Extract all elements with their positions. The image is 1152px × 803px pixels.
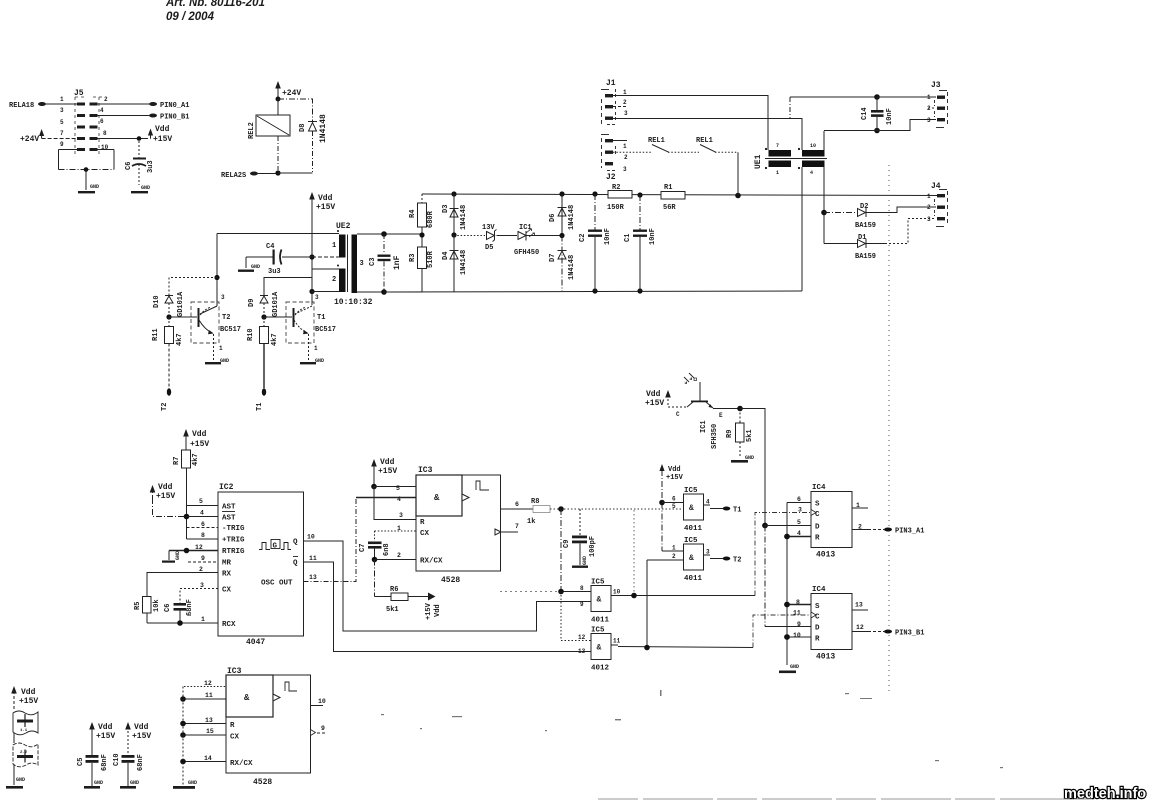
svg-text:12: 12 [204, 680, 212, 687]
node CX [180, 732, 186, 738]
svg-text:6: 6 [672, 496, 676, 503]
resistor R7 4k7 [173, 450, 200, 539]
node gate C out [631, 593, 637, 599]
wire pin5 [374, 486, 416, 488]
svg-text:1: 1 [927, 193, 931, 200]
transistor T2 BC517 [191, 294, 241, 364]
wire RX to R5 [147, 573, 218, 597]
wire S/R common vertical [786, 503, 788, 666]
svg-text:9: 9 [60, 141, 64, 148]
svg-text:D7: D7 [549, 254, 557, 262]
svg-text:1: 1 [314, 345, 318, 352]
resistor R5 10k [134, 597, 161, 624]
svg-text:Q: Q [293, 560, 298, 568]
power Vdd +15V (R7) [183, 429, 209, 450]
svg-text:E: E [719, 412, 723, 419]
wire FF1 outputs to PIN3_A1 [868, 529, 884, 531]
svg-text:IC1: IC1 [700, 420, 708, 433]
wire IC3b R [183, 723, 226, 725]
svg-text:2: 2 [332, 276, 336, 284]
node C1 top [637, 192, 642, 197]
NAND gate IC5a 4011 [662, 487, 741, 533]
svg-text:RTRIG: RTRIG [222, 548, 245, 556]
svg-text:&: & [434, 493, 440, 503]
svg-text:D: D [815, 625, 820, 633]
svg-text:8: 8 [103, 130, 107, 137]
flip-flop IC4a 4013 [797, 484, 868, 560]
ground (C5) [84, 786, 100, 789]
node FF2 S [784, 602, 790, 608]
svg-text:4011: 4011 [684, 575, 703, 583]
svg-text:C1: C1 [624, 234, 632, 242]
svg-text:UE1: UE1 [754, 154, 763, 169]
svg-text:RCX: RCX [222, 621, 236, 629]
svg-text:GND: GND [315, 358, 324, 364]
svg-text:4012: 4012 [591, 665, 610, 673]
svg-text:1: 1 [672, 545, 676, 552]
svg-text:MR: MR [222, 560, 232, 568]
svg-text:4: 4 [200, 510, 204, 517]
svg-text:510R: 510R [427, 250, 435, 268]
wire winding2 bottom [312, 291, 339, 293]
node D3 top [451, 191, 456, 196]
capacitor C6 68nF [164, 599, 194, 623]
diode D1 BA159 [824, 219, 936, 262]
svg-text:C: C [676, 411, 680, 418]
ground (J5) [78, 191, 95, 193]
wire secondary bottom rail [357, 291, 422, 293]
capacitor C10 68nF [113, 753, 145, 788]
node FF1 D [762, 523, 768, 529]
node C3 bottom [381, 289, 387, 295]
svg-text:R10: R10 [247, 328, 255, 341]
svg-text:GND: GND [220, 358, 229, 364]
NAND gate IC5c 4011 [561, 579, 755, 625]
svg-text:10: 10 [307, 534, 315, 541]
wire REL1 to node [737, 152, 739, 195]
svg-text:11: 11 [793, 610, 801, 617]
transformer UE1 [754, 143, 827, 176]
svg-text:C14: C14 [861, 107, 869, 120]
winding UE1-2 [769, 161, 792, 168]
svg-text:2: 2 [104, 96, 108, 103]
node C14 top [874, 94, 880, 100]
svg-text:+15V: +15V [19, 697, 38, 706]
svg-text:1: 1 [623, 143, 627, 150]
svg-text:3: 3 [360, 260, 364, 268]
diode D2 BA159 [824, 203, 936, 230]
svg-text:RX/CX: RX/CX [230, 760, 253, 768]
wire Vdd center-tap vertical [311, 207, 313, 305]
svg-text:+15V: +15V [96, 732, 115, 741]
net label PIN0_B1 [149, 114, 157, 118]
scan artifacts bottom [598, 798, 1092, 800]
svg-text:R6: R6 [390, 586, 398, 594]
svg-text:14: 14 [204, 755, 212, 762]
svg-text:Vdd: Vdd [192, 430, 207, 439]
svg-text:1N4148: 1N4148 [319, 114, 328, 143]
svg-text:+TRIG: +TRIG [222, 537, 245, 545]
wire J2 pin2 to REL1 [613, 151, 651, 153]
svg-text:SFH350: SFH350 [711, 424, 719, 449]
svg-text:Vdd: Vdd [434, 604, 442, 617]
svg-text:13: 13 [578, 648, 586, 655]
node D6 top [559, 191, 564, 196]
svg-text:13: 13 [309, 574, 317, 581]
svg-text:C9: C9 [563, 540, 571, 548]
svg-text:PIN0_A1: PIN0_A1 [160, 102, 189, 110]
resistor R8 1k [501, 498, 684, 526]
svg-text:S: S [815, 603, 820, 611]
winding UE1-1 [769, 150, 792, 157]
resistor R4 680R [409, 194, 435, 247]
flip-flop IC4b 4013 [793, 586, 868, 662]
capacitor C4 3u3 [238, 243, 312, 276]
svg-text:1N4148: 1N4148 [568, 255, 576, 280]
node C2 top [592, 191, 597, 196]
svg-text:C10: C10 [113, 753, 121, 766]
wire IC3b pin11 [183, 698, 226, 700]
wire J5 pin8 to Vdd node [98, 138, 147, 140]
svg-text:R9: R9 [726, 430, 734, 438]
svg-text:&: & [689, 554, 694, 563]
node IC3 pin5 [371, 484, 377, 490]
svg-text:4: 4 [706, 499, 710, 506]
power +24V (REL2) [275, 81, 301, 98]
svg-text:GND: GND [90, 184, 99, 190]
wire Q output [304, 541, 592, 631]
svg-text:4528: 4528 [253, 778, 272, 787]
svg-text:+15V: +15V [153, 135, 172, 144]
capacitor C5 68nF [77, 754, 109, 788]
wire R8 node down to gate C pin8 node [560, 509, 562, 592]
svg-text:1: 1 [219, 345, 223, 352]
wire +24V to J5 pin7 [42, 138, 77, 140]
power Vdd +15V (bulk caps) [11, 686, 38, 711]
capacitor C14 10nF [861, 97, 894, 131]
svg-text:68nF: 68nF [137, 754, 145, 771]
diode D6 1N4148 [549, 194, 576, 236]
wire mid to D5 [454, 235, 485, 237]
wire OSC OUT [304, 498, 357, 582]
svg-text:RELA18: RELA18 [9, 102, 34, 110]
svg-text:CX: CX [420, 530, 430, 538]
svg-text:680R: 680R [427, 210, 435, 228]
svg-text:D5: D5 [485, 244, 493, 252]
svg-text:GND: GND [251, 264, 260, 270]
svg-text:BA159: BA159 [855, 222, 876, 230]
diode D3 1N4148 [442, 194, 468, 235]
node FF1 R [784, 534, 790, 540]
node RCX/C6 [177, 620, 183, 626]
node +24V/D8 [276, 97, 281, 102]
wire winding2 top [312, 268, 339, 270]
wire C14 top to J3 pin1 [877, 96, 936, 98]
svg-text:+24V: +24V [282, 89, 301, 98]
svg-text:8: 8 [580, 585, 584, 592]
svg-text:4011: 4011 [684, 525, 703, 533]
winding UE1-4 [802, 161, 825, 168]
wire IC3b RX/CX [183, 761, 226, 763]
svg-text:+15V: +15V [378, 467, 397, 476]
wire FF2 R [787, 636, 811, 638]
wire T2 collector [216, 234, 218, 307]
svg-text:R7: R7 [173, 457, 181, 465]
svg-text:6: 6 [515, 501, 519, 508]
IC2 4047 [195, 483, 317, 647]
net label RELA18 [9, 102, 77, 110]
power Vdd +15V (AST) [150, 483, 187, 517]
svg-text:IC1: IC1 [519, 224, 532, 232]
svg-text:4047: 4047 [246, 638, 265, 647]
node T2 collector [214, 275, 219, 280]
node RX/CX [372, 557, 378, 563]
svg-text:9: 9 [321, 725, 325, 732]
svg-text:11: 11 [309, 555, 317, 562]
svg-text:3u3: 3u3 [268, 268, 281, 276]
ground (C9) [572, 566, 588, 568]
svg-text:4: 4 [397, 496, 401, 503]
svg-text:4011: 4011 [591, 617, 610, 625]
wire emitter node right and down [740, 409, 765, 526]
svg-text:2: 2 [397, 552, 401, 559]
IC3 4528 (second half) [204, 667, 326, 787]
svg-text:J1: J1 [606, 79, 616, 88]
svg-text:-TRIG: -TRIG [222, 525, 245, 533]
wire Vdd down to R row [374, 487, 416, 520]
svg-text:+15V: +15V [645, 399, 664, 408]
svg-text:3: 3 [60, 107, 64, 114]
resistor R2 150R [607, 184, 632, 212]
wire FF2 out to PIN3_B1 [868, 631, 884, 633]
svg-text:13: 13 [205, 717, 213, 724]
svg-text:1N4148: 1N4148 [460, 250, 468, 275]
astable G symbol [259, 540, 291, 550]
svg-text:3: 3 [315, 294, 319, 301]
svg-text:3: 3 [221, 294, 225, 301]
node T1 base [261, 314, 266, 319]
net label PIN0_A1 [149, 102, 157, 106]
wire UE1 top-right jog [790, 97, 877, 291]
svg-text:Vdd: Vdd [668, 466, 681, 474]
svg-text:1: 1 [60, 96, 64, 103]
wire AST pins common vertical [187, 506, 219, 540]
svg-text:CX: CX [230, 734, 240, 742]
wire FF1 D [765, 525, 811, 527]
svg-text:100pF: 100pF [589, 536, 597, 557]
IC3 4528 (first half) [396, 466, 519, 585]
svg-text:C5: C5 [77, 758, 85, 766]
net pin T2 drive [167, 388, 171, 396]
wire RCX row [147, 622, 218, 624]
svg-text:GND: GND [582, 556, 588, 565]
wire J5 pin2 to PIN0_A1 [98, 103, 150, 105]
svg-text:BC517: BC517 [315, 326, 336, 334]
svg-text:Vdd: Vdd [155, 125, 170, 134]
svg-text:10:10:32: 10:10:32 [334, 298, 373, 307]
svg-text:R5: R5 [134, 602, 142, 610]
resistor R6 5k1 [375, 586, 443, 620]
svg-text:R: R [230, 722, 235, 730]
capacitor C1 10nF [624, 195, 657, 291]
ground (R9) [731, 460, 748, 463]
node FF2 R [784, 634, 790, 640]
node emitter/R9 [737, 406, 743, 412]
svg-text:5: 5 [396, 485, 400, 492]
svg-text:R3: R3 [409, 254, 417, 262]
node RX/CX [180, 759, 186, 765]
svg-text:RELA2S: RELA2S [221, 172, 246, 180]
node C14 bottom [874, 128, 880, 134]
svg-text:Vdd: Vdd [98, 723, 113, 732]
wire FF1 R [787, 536, 811, 538]
svg-text:&: & [597, 644, 602, 653]
capacitor electrolytic bulk 1 [13, 711, 38, 743]
svg-text:4k7: 4k7 [192, 453, 200, 466]
svg-text:7: 7 [515, 523, 519, 530]
svg-text:C7: C7 [359, 544, 367, 552]
capacitor C9 100pF [563, 509, 597, 568]
svg-text:C6: C6 [164, 604, 172, 612]
ground (C6a) [131, 191, 148, 193]
svg-text:15: 15 [206, 728, 214, 735]
svg-text:J2: J2 [606, 173, 616, 182]
svg-text:6: 6 [797, 496, 801, 503]
svg-text:T1: T1 [733, 507, 741, 515]
svg-text:+24V: +24V [20, 135, 39, 144]
svg-text:+15V: +15V [156, 492, 175, 501]
power Vdd +15V (gates) [659, 464, 683, 551]
svg-text:D10: D10 [153, 295, 161, 308]
wire gateB pin2 down [646, 560, 648, 648]
svg-text:13V: 13V [482, 224, 495, 232]
svg-text:D6: D6 [549, 214, 557, 222]
svg-text:R: R [420, 519, 425, 527]
resistor R3 510R [409, 247, 435, 292]
diode D10 GD101A [153, 291, 185, 317]
node J5 Vdd [137, 136, 142, 141]
transformer UE2 [217, 222, 422, 307]
svg-text:5: 5 [797, 519, 801, 526]
winding 3 (UE2 secondary) [352, 235, 358, 294]
svg-text:Vdd: Vdd [21, 688, 36, 697]
power Vdd +15V (C10) [125, 722, 151, 755]
svg-text:&: & [689, 504, 694, 513]
svg-text:3: 3 [623, 166, 627, 173]
wire RX/CX row [375, 559, 417, 561]
wire transistor line down to FF2 D [764, 526, 766, 627]
power +24V left [20, 129, 77, 144]
node C3 top [381, 231, 387, 237]
resistor R9 5k1 [726, 409, 754, 463]
wire Qbar output [304, 562, 592, 652]
wire IC3b pin12 [184, 686, 226, 688]
svg-text:&: & [244, 693, 250, 703]
svg-text:4528: 4528 [441, 576, 460, 585]
ground (C4) [238, 270, 254, 272]
wire RTRIG with gnd [162, 548, 218, 563]
svg-text:GD101A: GD101A [177, 291, 185, 317]
svg-text:medteh.info: medteh.info [1064, 786, 1146, 802]
svg-text:D3: D3 [442, 205, 450, 213]
svg-text:Vdd: Vdd [318, 194, 333, 203]
connector J1 [601, 79, 628, 126]
long dotted scan line [888, 165, 890, 695]
svg-text:&: & [597, 596, 602, 605]
wire J2 pin1 stub [613, 140, 627, 142]
svg-text:3: 3 [399, 512, 403, 519]
wire D9 top [264, 278, 312, 296]
svg-text:T2: T2 [161, 403, 169, 411]
svg-text:1: 1 [201, 616, 205, 623]
svg-text:R: R [815, 636, 820, 644]
wire FF2 S [787, 604, 811, 606]
node pin11 [180, 696, 186, 702]
svg-text:IC2: IC2 [219, 483, 234, 492]
svg-text:10: 10 [613, 589, 621, 596]
svg-text:5k1: 5k1 [746, 429, 754, 442]
svg-text:C2: C2 [579, 234, 587, 242]
wire UE1 mid line [765, 158, 827, 160]
node D3/D4 mid [451, 232, 456, 237]
svg-text:09 / 2004: 09 / 2004 [166, 11, 215, 23]
wire winding1 bottom to node [312, 256, 339, 258]
svg-text:GND: GND [175, 551, 181, 560]
svg-text:56R: 56R [663, 204, 676, 212]
connector J3 [927, 81, 948, 128]
wire J5 pin4 to PIN0_B1 [98, 115, 150, 117]
svg-text:GND: GND [16, 777, 25, 783]
switch REL1 a [648, 137, 699, 152]
svg-text:1nF: 1nF [393, 255, 402, 270]
svg-text:10nF: 10nF [604, 228, 612, 245]
svg-text:T1: T1 [317, 314, 325, 322]
svg-text:1: 1 [927, 94, 931, 101]
svg-text:9: 9 [580, 601, 584, 608]
svg-text:+15V: +15V [316, 203, 335, 212]
svg-text:4k7: 4k7 [271, 333, 279, 346]
net label RELA2S [221, 172, 278, 181]
svg-text:10k: 10k [153, 599, 161, 612]
svg-text:Q: Q [293, 539, 298, 547]
svg-text:D8: D8 [299, 124, 307, 132]
svg-text:4013: 4013 [816, 653, 835, 662]
svg-text:OSC OUT: OSC OUT [261, 580, 293, 588]
svg-text:10: 10 [793, 632, 801, 639]
svg-text:2: 2 [624, 154, 628, 161]
svg-text:Vdd: Vdd [646, 390, 661, 399]
NAND gate IC5d 4012 [578, 627, 753, 673]
resistor R11 4k7 [152, 317, 184, 388]
medteh.info watermark [1064, 786, 1146, 802]
power Vdd +15V (C5) [89, 722, 115, 755]
wire gate D out to FF2 clock [753, 615, 811, 648]
wire IC3b CX [183, 734, 226, 736]
svg-text:D9: D9 [248, 299, 256, 307]
wire node to D8 top [278, 99, 313, 121]
svg-text:IC3: IC3 [418, 466, 433, 475]
svg-text:1: 1 [332, 242, 336, 250]
capacitor C3 1nF [369, 234, 402, 292]
svg-text:AST: AST [222, 504, 236, 512]
bottom rail y=292 [384, 291, 802, 292]
wire CX to C6 [180, 589, 218, 604]
svg-text:11: 11 [205, 692, 213, 699]
node D2 [821, 210, 827, 216]
node REL1/R1 [735, 193, 741, 199]
svg-text:7: 7 [776, 143, 779, 149]
wire C14 bottom to J3 pin3 [824, 120, 936, 131]
